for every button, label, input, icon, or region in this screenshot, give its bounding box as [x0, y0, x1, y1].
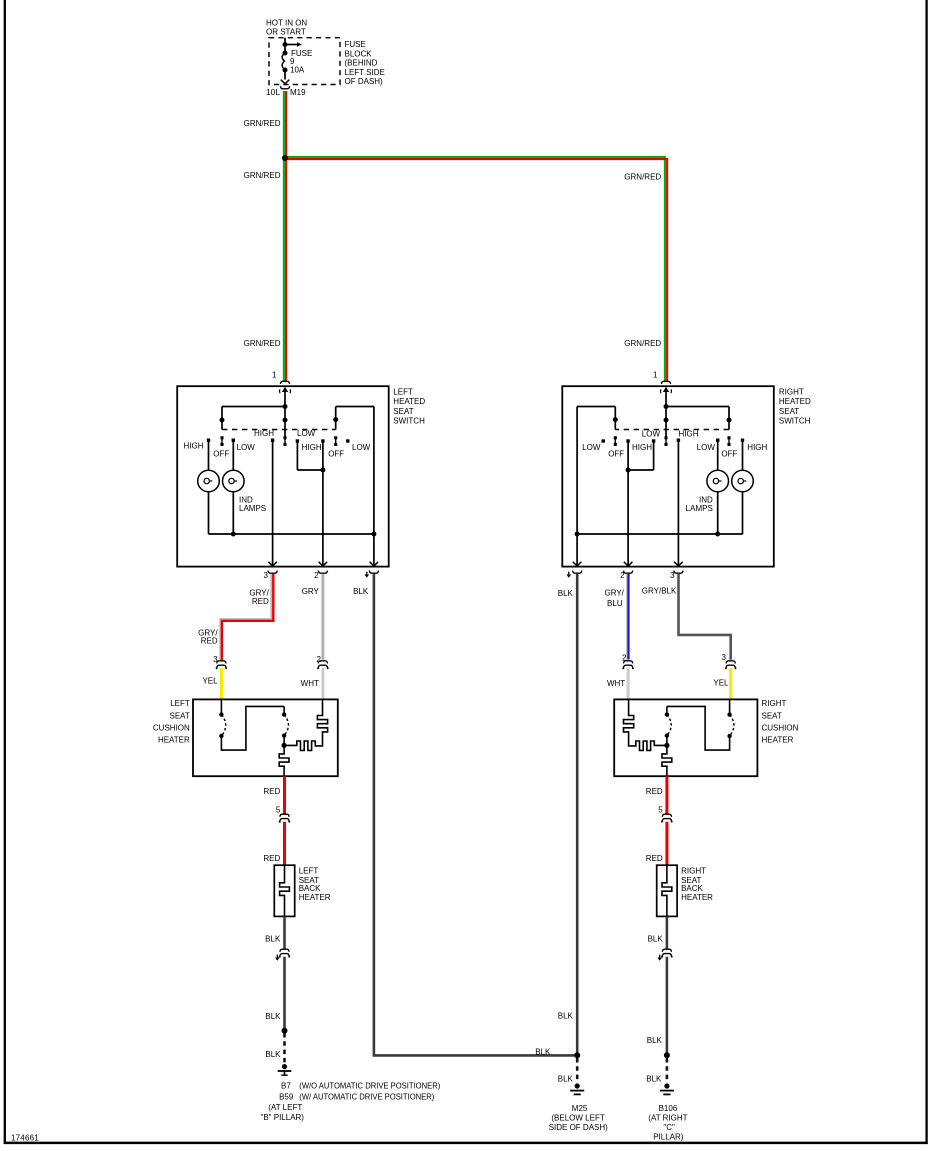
- svg-text:10A: 10A: [290, 65, 305, 74]
- svg-text:HIGH: HIGH: [302, 443, 322, 452]
- ground M25 below left side of dash: [575, 1083, 580, 1088]
- label GRY/RED: [249, 588, 269, 605]
- svg-text:SWITCH: SWITCH: [779, 417, 811, 426]
- left switch pin1 entry arrow: [282, 387, 288, 392]
- svg-text:1: 1: [653, 370, 658, 379]
- inner pole wiper feed: [333, 407, 374, 566]
- svg-text:B7: B7: [281, 1082, 291, 1091]
- wire GRN/RED left vertical to left switch: [284, 158, 286, 381]
- svg-text:OFF: OFF: [328, 449, 344, 458]
- svg-text:B59: B59: [279, 1092, 294, 1101]
- svg-text:LOW: LOW: [642, 430, 661, 439]
- svg-text:(AT RIGHT: (AT RIGHT: [648, 1114, 687, 1123]
- svg-text:IND: IND: [699, 495, 713, 504]
- inner pole wiper feed: [577, 407, 618, 566]
- svg-text:GRN/RED: GRN/RED: [624, 172, 661, 181]
- svg-text:5: 5: [276, 805, 281, 814]
- svg-text:OF DASH): OF DASH): [345, 77, 384, 86]
- dashed BLK to M25 ground: [576, 1058, 579, 1083]
- right heated seat switch box: [562, 386, 774, 566]
- svg-text:HIGH: HIGH: [679, 430, 699, 439]
- lamp return bus: [575, 492, 743, 537]
- wire WHT right: [627, 668, 630, 700]
- wiper off-contact stacks: [220, 436, 337, 446]
- svg-text:CUSHION: CUSHION: [762, 723, 799, 732]
- outer pole HIGH contact to indicator lamp: [207, 439, 210, 471]
- wire RED right cushion to splice 5: [665, 776, 668, 813]
- inline connector 2 right: [622, 654, 634, 670]
- switch position labels: [184, 429, 371, 459]
- cushion heating element: [284, 699, 328, 750]
- cushion heating element: [624, 699, 667, 750]
- RIGHT seat back heater box: [657, 865, 677, 916]
- svg-text:BLK: BLK: [558, 1011, 574, 1020]
- right switch pin 3: [670, 571, 683, 580]
- thermal limiter 2: [282, 706, 289, 748]
- svg-text:OFF: OFF: [608, 449, 624, 458]
- svg-text:BLK: BLK: [648, 935, 664, 944]
- svg-text:M19: M19: [290, 88, 306, 97]
- center pole HIGH contact to pin 3: [677, 439, 680, 566]
- cushion heater name label: [762, 699, 799, 744]
- pin1 feed line: [283, 390, 288, 437]
- svg-text:CUSHION: CUSHION: [153, 723, 190, 732]
- svg-text:IND: IND: [239, 495, 253, 504]
- svg-text:HEATED: HEATED: [779, 397, 811, 406]
- svg-text:HIGH: HIGH: [632, 443, 652, 452]
- seat back heating element: [280, 865, 290, 916]
- fuse block exit arrow and connector 10L / M19: [266, 80, 306, 97]
- svg-text:RIGHT: RIGHT: [762, 699, 787, 708]
- svg-text:LAMPS: LAMPS: [686, 504, 713, 513]
- wiper off-contact stacks: [614, 436, 731, 446]
- branch to outer pole wiper: [220, 407, 286, 430]
- wire YEL left: [220, 668, 223, 700]
- fuse block internal bus and branch arrow: [283, 38, 303, 53]
- splice right: [664, 1052, 670, 1058]
- svg-text:HIGH: HIGH: [184, 441, 204, 450]
- pin1 feed line: [664, 390, 669, 437]
- svg-text:(BEHIND: (BEHIND: [345, 59, 378, 68]
- series link: [221, 706, 284, 750]
- seat back heating element: [662, 865, 672, 916]
- svg-text:HEATER: HEATER: [299, 893, 331, 902]
- svg-text:(W/O AUTOMATIC DRIVE POSITIONE: (W/O AUTOMATIC DRIVE POSITIONER): [299, 1082, 440, 1091]
- right switch ground pin: [567, 571, 582, 577]
- svg-text:GRN/RED: GRN/RED: [244, 171, 281, 180]
- fuse 9 10A: [282, 49, 312, 79]
- svg-text:BACK: BACK: [681, 884, 703, 893]
- mechanical linkage dashed bar: [615, 429, 729, 431]
- svg-text:RED: RED: [263, 787, 280, 796]
- wire GRN/RED from fuse to junction: [284, 91, 286, 158]
- svg-text:B106: B106: [659, 1104, 678, 1113]
- svg-text:BLK: BLK: [353, 587, 369, 596]
- svg-text:SEAT: SEAT: [169, 711, 189, 720]
- LEFT seat back heater box: [274, 865, 294, 916]
- svg-text:LOW: LOW: [352, 443, 371, 452]
- wire GRY/BLK right pin3: [679, 574, 731, 660]
- svg-text:"B" PILLAR): "B" PILLAR): [261, 1113, 305, 1122]
- svg-text:SEAT: SEAT: [779, 407, 799, 416]
- inline connector BLK: [276, 949, 291, 960]
- svg-text:GRY/BLK: GRY/BLK: [642, 586, 677, 595]
- center pole LOW contact link: [626, 439, 656, 472]
- svg-text:LEFT: LEFT: [299, 867, 319, 876]
- outer pole LOW contact to indicator lamp: [232, 439, 235, 471]
- svg-text:RED: RED: [252, 597, 269, 606]
- svg-text:BLU: BLU: [607, 599, 623, 608]
- inline connector 3 left: [213, 655, 227, 669]
- left switch pin 1: [272, 370, 290, 384]
- svg-text:M25: M25: [572, 1104, 588, 1113]
- svg-text:BLK: BLK: [558, 1075, 574, 1084]
- svg-text:GRY/: GRY/: [604, 588, 624, 597]
- fuse block dashed box: [269, 38, 340, 85]
- wire RED to seat back heater: [283, 822, 286, 865]
- dashed BLK to left ground: [283, 1033, 286, 1064]
- svg-text:LAMPS: LAMPS: [239, 504, 266, 513]
- mechanical linkage dashed bar: [222, 429, 336, 431]
- inner pole LOW contact (unconnected): [346, 439, 349, 442]
- svg-text:174661: 174661: [11, 1134, 39, 1143]
- svg-text:HOT IN ON: HOT IN ON: [266, 18, 307, 27]
- wire BLK below right seat back heater: [666, 916, 669, 948]
- wire BLK right seat back to splice: [666, 957, 669, 1054]
- svg-text:OFF: OFF: [721, 449, 737, 458]
- left heated seat switch box: [177, 386, 389, 566]
- svg-text:RIGHT: RIGHT: [681, 867, 706, 876]
- svg-text:BLK: BLK: [646, 1075, 662, 1084]
- seat back heater label: [299, 867, 331, 903]
- svg-text:10L: 10L: [266, 88, 281, 97]
- left switch ground pin: [365, 571, 378, 577]
- left switch name label: [393, 387, 425, 425]
- splice middle: [574, 1052, 580, 1058]
- dashed BLK to B106 ground: [666, 1058, 669, 1083]
- svg-text:YEL: YEL: [713, 678, 729, 687]
- inner pole LOW contact (unconnected): [602, 439, 605, 442]
- wire GRY left pin2: [321, 574, 324, 660]
- svg-text:LEFT SIDE: LEFT SIDE: [345, 68, 385, 77]
- splice junction of GRN/RED: [282, 155, 288, 161]
- svg-text:RED: RED: [263, 854, 280, 863]
- svg-text:HEATER: HEATER: [762, 736, 794, 745]
- right switch name label: [779, 387, 811, 425]
- svg-text:LOW: LOW: [582, 443, 601, 452]
- thermal limiter 1: [219, 699, 226, 738]
- svg-text:GRY: GRY: [302, 587, 320, 596]
- thermal limiter 1: [727, 699, 734, 738]
- wire GRY/BLU right pin2: [627, 574, 629, 660]
- svg-text:WHT: WHT: [301, 679, 319, 688]
- indicator lamp 2: [707, 470, 729, 492]
- cushion heater name label: [153, 699, 190, 744]
- left seat cushion heater box: [193, 699, 338, 776]
- svg-text:"C": "C": [663, 1123, 675, 1132]
- fuse block label: [345, 40, 385, 86]
- svg-text:RED: RED: [201, 636, 218, 645]
- ground B7/B59 at left B pillar: [282, 1064, 287, 1069]
- indicator lamp 2: [223, 470, 245, 492]
- label GRY/BLU: [604, 588, 624, 608]
- center pole LOW contact link: [296, 439, 326, 472]
- svg-text:LOW: LOW: [297, 429, 316, 438]
- inner pole HIGH contact to pin 2: [626, 439, 629, 565]
- svg-text:RIGHT: RIGHT: [779, 387, 804, 396]
- svg-text:BLK: BLK: [558, 589, 574, 598]
- indicator lamp 1: [198, 470, 220, 492]
- inline connector 3 right: [722, 653, 737, 669]
- ground B106 at right C pillar: [664, 1083, 669, 1088]
- inline connector 5: [658, 805, 672, 822]
- inline connector 2 left: [317, 655, 329, 669]
- wire RED left cushion to splice 5: [283, 776, 286, 813]
- svg-text:BLK: BLK: [265, 1050, 281, 1059]
- right switch pin1 entry arrow: [663, 387, 669, 392]
- svg-text:FUSE: FUSE: [345, 40, 366, 49]
- svg-text:WHT: WHT: [607, 679, 625, 688]
- wire GRY/RED left pin3: [220, 574, 273, 660]
- switch position labels: [582, 430, 767, 459]
- svg-text:PILLAR): PILLAR): [653, 1133, 684, 1142]
- svg-text:SEAT: SEAT: [393, 407, 413, 416]
- wire GRN/RED horizontal branch to right: [284, 157, 667, 381]
- center pole HIGH contact to pin 3: [271, 439, 274, 566]
- left switch pin 2: [314, 571, 327, 580]
- svg-text:5: 5: [658, 805, 663, 814]
- svg-text:HEATED: HEATED: [393, 397, 425, 406]
- wire YEL right: [729, 668, 732, 700]
- wire BLK below left seat back heater: [283, 916, 286, 948]
- branch to outer pole wiper: [666, 407, 732, 430]
- svg-text:HEATER: HEATER: [158, 736, 190, 745]
- svg-text:1: 1: [272, 370, 277, 379]
- svg-text:LOW: LOW: [237, 443, 256, 452]
- wire BLK left to splice: [283, 957, 286, 1029]
- svg-text:OFF: OFF: [213, 449, 229, 458]
- svg-text:SIDE OF DASH): SIDE OF DASH): [549, 1123, 608, 1132]
- thermal limiter 2: [664, 706, 671, 748]
- svg-text:HEATER: HEATER: [681, 893, 713, 902]
- svg-text:GRN/RED: GRN/RED: [244, 119, 281, 128]
- series link: [667, 706, 730, 750]
- svg-text:HIGH: HIGH: [254, 429, 274, 438]
- label GRY/RED lower: [198, 629, 218, 646]
- ground label M25: [549, 1104, 608, 1132]
- IND LAMPS label: [686, 495, 713, 513]
- IND LAMPS label: [239, 495, 266, 513]
- wire RED to seat back heater: [665, 822, 668, 865]
- svg-text:RED: RED: [646, 854, 663, 863]
- wire WHT left: [321, 668, 324, 700]
- cushion output element: [662, 745, 672, 776]
- svg-text:BLOCK: BLOCK: [345, 49, 373, 58]
- svg-text:YEL: YEL: [202, 676, 218, 685]
- pin exit arrows: [573, 562, 683, 566]
- svg-text:SEAT: SEAT: [762, 711, 782, 720]
- svg-text:3: 3: [722, 653, 727, 662]
- ground label B7 B59: [261, 1082, 441, 1123]
- svg-text:HIGH: HIGH: [747, 443, 767, 452]
- svg-text:BLK: BLK: [647, 1036, 663, 1045]
- inner pole HIGH contact to pin 2: [321, 439, 324, 565]
- left switch pin 3: [264, 571, 278, 580]
- svg-text:SWITCH: SWITCH: [393, 417, 425, 426]
- outer pole LOW contact to indicator lamp: [716, 439, 719, 471]
- inline connector BLK: [658, 949, 673, 960]
- right switch pin 2: [620, 571, 633, 580]
- cushion output element: [279, 745, 289, 776]
- outer pole HIGH contact to indicator lamp: [741, 439, 744, 471]
- svg-text:(W/ AUTOMATIC DRIVE POSITIONER: (W/ AUTOMATIC DRIVE POSITIONER): [299, 1092, 434, 1101]
- svg-text:BLK: BLK: [265, 1012, 281, 1021]
- right seat cushion heater box: [614, 699, 757, 776]
- splice left: [282, 1028, 288, 1034]
- svg-text:BLK: BLK: [535, 1048, 551, 1057]
- label HOT IN ON OR START: [266, 18, 307, 36]
- svg-text:OR START: OR START: [266, 28, 306, 37]
- svg-text:BACK: BACK: [299, 884, 321, 893]
- svg-text:GRN/RED: GRN/RED: [624, 339, 661, 348]
- wire BLK left switch ground - long run: [374, 574, 577, 1056]
- svg-text:BLK: BLK: [265, 935, 281, 944]
- svg-text:(AT LEFT: (AT LEFT: [268, 1103, 302, 1112]
- svg-text:GRN/RED: GRN/RED: [244, 339, 281, 348]
- svg-text:LEFT: LEFT: [170, 699, 190, 708]
- inline connector 5: [276, 805, 290, 822]
- indicator lamp 1: [732, 470, 754, 492]
- pin exit arrows: [268, 562, 378, 566]
- ground label B106: [648, 1104, 687, 1142]
- seat back heater label: [681, 867, 713, 903]
- svg-text:LOW: LOW: [697, 443, 716, 452]
- right switch pin 1: [653, 370, 671, 384]
- svg-text:(BELOW LEFT: (BELOW LEFT: [551, 1114, 604, 1123]
- lamp return bus: [209, 492, 377, 537]
- wire BLK right switch ground: [576, 574, 579, 1054]
- svg-text:RED: RED: [646, 787, 663, 796]
- svg-text:LEFT: LEFT: [393, 387, 413, 396]
